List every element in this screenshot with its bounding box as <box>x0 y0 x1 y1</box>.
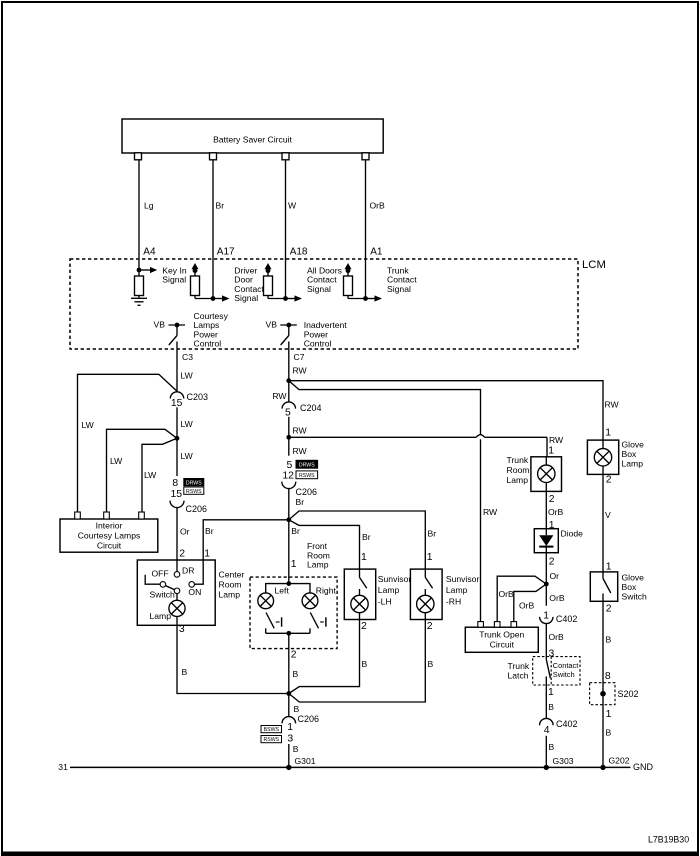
svg-text:RW: RW <box>549 435 564 445</box>
svg-text:C3: C3 <box>182 352 193 362</box>
svg-text:1: 1 <box>291 559 297 570</box>
node front room top junction <box>286 581 291 586</box>
svg-text:DR: DR <box>182 566 194 576</box>
wire LW branch to interior box terminal 1 <box>78 374 177 512</box>
node Or junction <box>544 582 549 587</box>
svg-text:8: 8 <box>605 671 611 682</box>
all doors arrow <box>286 266 342 302</box>
wire OrB below trunk room lamp <box>546 491 563 530</box>
svg-text:LW: LW <box>82 420 95 430</box>
svg-text:1: 1 <box>548 687 554 698</box>
svg-text:C206: C206 <box>298 714 320 724</box>
connector C402 lower <box>540 718 578 735</box>
resistor A1 pull-up with supply arrow <box>344 263 366 299</box>
svg-text:Trunk: Trunk <box>507 455 529 465</box>
node G301 <box>286 765 291 770</box>
svg-text:W: W <box>288 201 297 211</box>
pin 8 / pin 15 labels at C206 <box>171 478 183 500</box>
svg-text:1: 1 <box>204 549 210 560</box>
wire B sunvisor RH <box>289 620 434 703</box>
svg-text:Lamp: Lamp <box>622 458 644 468</box>
svg-text:B: B <box>362 659 368 669</box>
svg-text:DRWS: DRWS <box>186 480 202 486</box>
svg-text:Br: Br <box>216 201 225 211</box>
svg-text:RW: RW <box>293 426 308 436</box>
svg-text:RSWS: RSWS <box>186 489 202 495</box>
svg-text:B: B <box>294 704 300 714</box>
svg-text:3: 3 <box>179 624 185 635</box>
svg-text:2: 2 <box>361 621 367 632</box>
svg-text:Control: Control <box>304 339 332 349</box>
svg-text:3: 3 <box>287 733 293 744</box>
svg-text:Lg: Lg <box>144 201 154 211</box>
svg-text:5: 5 <box>287 460 293 471</box>
wire B to S202 <box>603 601 612 767</box>
svg-text:OrB: OrB <box>549 632 565 642</box>
svg-text:Trunk Open: Trunk Open <box>479 630 524 640</box>
switch lever (at OFF) <box>150 586 180 600</box>
svg-text:LCM: LCM <box>582 259 606 271</box>
svg-text:OrB: OrB <box>548 507 564 517</box>
svg-text:Contact: Contact <box>553 661 578 670</box>
svg-text:G301: G301 <box>295 756 316 766</box>
lamp trunk room <box>538 457 555 492</box>
wire LW below C203 <box>177 407 194 476</box>
node G202 <box>600 765 605 770</box>
harness label box RSWS bottom <box>261 736 282 744</box>
svg-text:VB: VB <box>154 320 166 330</box>
front room lamp box (dashed) <box>250 577 337 649</box>
contact switch inner box (dashed) <box>551 657 578 685</box>
resistor A17 pull-up with supply arrow <box>191 263 214 299</box>
svg-text:Control: Control <box>194 339 222 349</box>
node Br junction <box>286 517 291 522</box>
front room bottom bus <box>266 632 310 634</box>
svg-text:B: B <box>606 728 612 738</box>
svg-text:Signal: Signal <box>307 284 331 294</box>
wire RW to glove box lamp <box>289 381 603 440</box>
svg-text:Glove: Glove <box>622 573 645 583</box>
switch trunk latch <box>546 657 554 719</box>
harness label box BSWS bottom <box>261 726 282 734</box>
svg-text:Lamp: Lamp <box>150 611 172 621</box>
svg-text:Lamp: Lamp <box>378 585 400 595</box>
node G303 <box>544 765 549 770</box>
lamp sunvisor LH <box>351 589 368 620</box>
svg-text:C206: C206 <box>296 487 318 497</box>
center room lamp box <box>137 560 244 625</box>
wire B to G303 <box>546 736 573 768</box>
svg-text:LW: LW <box>181 371 194 381</box>
wire OrB (A1) <box>366 160 386 299</box>
svg-text:1: 1 <box>287 722 293 733</box>
svg-text:Sunvisor: Sunvisor <box>446 574 480 584</box>
svg-text:C203: C203 <box>187 392 209 402</box>
switch sunvisor RH <box>425 569 432 588</box>
harness label box RSWS right <box>296 471 318 479</box>
switch front room left <box>266 613 282 634</box>
svg-text:G202: G202 <box>609 756 630 766</box>
switch VB inadvertent power control <box>266 320 348 349</box>
svg-text:Interior: Interior <box>96 521 123 531</box>
svg-text:Signal: Signal <box>162 275 186 285</box>
pin labels center room lamp <box>179 549 210 636</box>
svg-text:RW: RW <box>605 400 620 410</box>
battery saver circuit box <box>122 119 383 160</box>
svg-text:1: 1 <box>605 427 611 438</box>
interior courtesy lamps circuit box <box>60 512 158 552</box>
svg-text:Br: Br <box>296 497 305 507</box>
svg-text:Box: Box <box>622 449 638 459</box>
svg-text:A4: A4 <box>143 246 156 257</box>
svg-text:4: 4 <box>544 725 550 736</box>
ground bus 31 <box>58 762 653 772</box>
svg-text:DRWS: DRWS <box>299 463 315 469</box>
node LW junction <box>175 436 180 441</box>
svg-text:VB: VB <box>266 320 278 330</box>
wire OrB to trunk latch <box>546 624 564 660</box>
svg-text:Room: Room <box>507 465 530 475</box>
svg-text:Lamp: Lamp <box>446 585 468 595</box>
svg-text:B: B <box>182 667 188 677</box>
svg-text:1: 1 <box>543 610 549 621</box>
svg-text:LW: LW <box>144 470 157 480</box>
diode <box>534 529 583 553</box>
wire OrB to trunk open circuit right <box>514 584 547 622</box>
wire RW to trunk open circuit <box>289 381 481 435</box>
svg-text:OFF: OFF <box>152 569 169 579</box>
lamp glove box <box>594 440 611 474</box>
ground <box>131 298 147 305</box>
svg-text:Switch: Switch <box>553 670 575 679</box>
contact DR <box>174 560 194 577</box>
wire B sunvisor LH <box>289 620 368 694</box>
wire C7 output <box>289 342 308 403</box>
connector C206 bottom <box>282 714 319 744</box>
svg-text:C204: C204 <box>300 403 322 413</box>
svg-text:15: 15 <box>171 489 183 500</box>
text front room lamp <box>307 541 330 570</box>
svg-text:C402: C402 <box>556 614 578 624</box>
wire Or below diode <box>546 553 559 606</box>
trunk latch box (dashed) <box>508 657 581 685</box>
svg-text:Lamp: Lamp <box>307 560 329 570</box>
svg-text:B: B <box>548 702 554 712</box>
wire Or to center room lamp <box>177 508 190 560</box>
lamp center room <box>150 594 186 626</box>
wire B from center room lamp <box>177 625 287 693</box>
svg-text:Or: Or <box>180 527 190 537</box>
svg-text:Switch: Switch <box>150 589 176 599</box>
wire RW to trunk room lamp (with hop over) <box>289 435 564 457</box>
svg-text:Glove: Glove <box>622 439 645 449</box>
wire Br to sunvisor lamp RH <box>289 511 436 569</box>
sunvisor lamp RH box <box>410 569 479 619</box>
wire Lg (A4) <box>139 160 156 270</box>
contact ON <box>188 560 203 597</box>
svg-text:B: B <box>549 742 555 752</box>
svg-text:-RH: -RH <box>446 597 461 607</box>
svg-text:LW: LW <box>110 456 123 466</box>
wire Br (A17) <box>213 160 235 299</box>
svg-text:A1: A1 <box>370 247 383 258</box>
svg-text:Center: Center <box>219 570 245 580</box>
svg-text:B: B <box>293 669 299 679</box>
svg-text:Courtesy Lamps: Courtesy Lamps <box>78 531 141 541</box>
svg-text:Sunvisor: Sunvisor <box>378 574 412 584</box>
svg-text:OrB: OrB <box>549 593 565 603</box>
svg-text:RW: RW <box>293 446 308 456</box>
connector C402 upper <box>540 610 578 624</box>
switch sunvisor LH <box>360 569 367 588</box>
node RW junction 1 <box>286 378 291 383</box>
svg-text:5: 5 <box>285 408 291 419</box>
wire B to C206 bottom <box>289 694 300 717</box>
svg-text:12: 12 <box>282 471 294 482</box>
wire Br to sunvisor lamp LH <box>289 520 371 569</box>
harness label box DRWS right <box>296 460 318 468</box>
svg-text:OrB: OrB <box>499 589 515 599</box>
wire W (A18) <box>286 160 308 299</box>
svg-text:Br: Br <box>205 526 214 536</box>
svg-text:LW: LW <box>181 419 194 429</box>
driver door arrow <box>213 266 265 304</box>
resistor A18 pull-up with supply arrow <box>264 263 286 299</box>
svg-text:C402: C402 <box>556 719 578 729</box>
node B junction below front room <box>286 691 291 696</box>
wire LW branch to interior box terminal 2 <box>107 429 178 512</box>
connector C204 <box>282 402 321 419</box>
svg-text:B: B <box>293 744 299 754</box>
node A17 junction <box>211 296 216 301</box>
svg-text:2: 2 <box>606 604 612 615</box>
lamp front room left <box>258 584 290 609</box>
svg-text:Signal: Signal <box>387 284 411 294</box>
node Key In junction on A4 <box>137 268 142 273</box>
svg-text:Br: Br <box>291 526 300 536</box>
svg-text:LW: LW <box>181 451 194 461</box>
svg-text:Left: Left <box>275 585 290 595</box>
svg-text:RW: RW <box>483 507 498 517</box>
wire B to G301 <box>289 744 316 767</box>
wire Br below C206 right <box>289 489 304 584</box>
glove box lamp box <box>587 439 644 474</box>
svg-text:Right: Right <box>316 585 337 595</box>
svg-text:Switch: Switch <box>622 592 648 602</box>
svg-text:Br: Br <box>362 532 371 542</box>
svg-text:Diode: Diode <box>561 529 584 539</box>
trunk room lamp box <box>507 455 562 491</box>
svg-text:2: 2 <box>549 557 555 568</box>
svg-text:GND: GND <box>633 762 654 772</box>
svg-text:ON: ON <box>188 587 201 597</box>
svg-text:A17: A17 <box>217 247 235 258</box>
svg-text:RSWS: RSWS <box>299 473 315 479</box>
trunk contact arrow <box>366 266 418 302</box>
svg-text:C7: C7 <box>294 352 305 362</box>
glove box switch box <box>590 572 647 602</box>
trunk open circuit box <box>465 622 538 653</box>
svg-text:C206: C206 <box>186 504 208 514</box>
wire V to glove box switch <box>603 474 612 572</box>
svg-text:BSWS: BSWS <box>264 727 280 733</box>
svg-text:-LH: -LH <box>378 597 392 607</box>
lamp sunvisor RH <box>417 589 434 620</box>
svg-text:B: B <box>428 659 434 669</box>
wire OrB to trunk open circuit middle <box>497 576 546 621</box>
pin 5 / pin 12 labels at C206 right <box>282 460 294 482</box>
svg-text:31: 31 <box>58 762 68 772</box>
harness label box RSWS <box>184 487 204 495</box>
contact OFF <box>145 569 168 588</box>
svg-text:8: 8 <box>172 478 178 489</box>
svg-text:OrB: OrB <box>519 601 535 611</box>
svg-text:RW: RW <box>293 366 308 376</box>
svg-text:Circuit: Circuit <box>490 640 515 650</box>
svg-text:V: V <box>605 510 611 520</box>
svg-text:Lamp: Lamp <box>507 475 529 485</box>
svg-text:1: 1 <box>606 561 612 572</box>
sunvisor lamp LH box <box>344 569 411 619</box>
node A1 junction <box>363 296 368 301</box>
connector C206 right <box>282 482 317 497</box>
connector C206 left <box>170 501 207 514</box>
svg-text:1: 1 <box>548 445 554 456</box>
harness label box DRWS <box>184 479 204 487</box>
wire RW glove box lamp <box>605 400 620 439</box>
svg-text:RSWS: RSWS <box>264 737 280 743</box>
wire C3 output <box>177 342 194 392</box>
svg-text:1: 1 <box>427 552 433 563</box>
wire LW branch to interior box terminal 3 <box>142 438 177 512</box>
svg-text:G303: G303 <box>553 756 574 766</box>
svg-text:2: 2 <box>179 549 185 560</box>
connector C203 <box>170 392 208 409</box>
key in signal arrow <box>141 266 187 285</box>
node RW junction 2 <box>286 435 291 440</box>
svg-text:Circuit: Circuit <box>97 541 122 551</box>
LCM module box (dashed) <box>70 259 578 349</box>
lamp front room right <box>289 584 337 609</box>
switch VB courtesy lamps power control <box>154 311 229 349</box>
svg-text:RW: RW <box>272 391 287 401</box>
svg-text:2: 2 <box>427 621 433 632</box>
svg-text:Signal: Signal <box>234 293 258 303</box>
svg-text:Battery Saver Circuit: Battery Saver Circuit <box>213 135 292 145</box>
svg-text:OrB: OrB <box>370 201 386 211</box>
switch front room right <box>310 613 326 634</box>
svg-text:2: 2 <box>291 650 297 661</box>
svg-text:1: 1 <box>361 552 367 563</box>
svg-text:L7B19B30: L7B19B30 <box>648 835 689 845</box>
svg-text:Room: Room <box>219 580 242 590</box>
wire RW below C204 <box>289 417 308 456</box>
labels below S202 <box>606 709 630 766</box>
svg-text:A18: A18 <box>290 247 308 258</box>
svg-text:Box: Box <box>622 582 638 592</box>
svg-text:Or: Or <box>550 571 560 581</box>
svg-text:2: 2 <box>549 494 555 505</box>
resistor key-in pull-down <box>135 270 144 298</box>
node front room bottom junction <box>286 631 291 636</box>
wire B from front room lamp <box>289 633 299 693</box>
svg-text:S202: S202 <box>618 689 639 699</box>
svg-text:2: 2 <box>606 475 612 486</box>
wire Br to center room lamp pin 1 <box>203 520 289 560</box>
splice S202 (dashed box) <box>590 683 639 705</box>
node A18 junction <box>283 296 288 301</box>
svg-text:Br: Br <box>428 529 437 539</box>
svg-text:B: B <box>606 635 612 645</box>
svg-text:1: 1 <box>606 709 612 720</box>
svg-text:Lamp: Lamp <box>219 590 241 600</box>
svg-text:Latch: Latch <box>508 670 529 680</box>
